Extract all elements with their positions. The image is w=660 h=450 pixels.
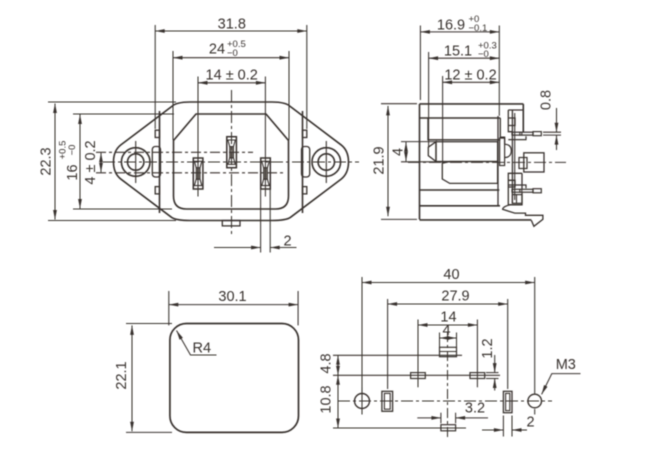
- left ear hole outer: [121, 148, 150, 177]
- svg-text:4: 4: [442, 323, 450, 339]
- earth pin bump: [505, 144, 512, 157]
- small pad right: [470, 373, 485, 379]
- dim 4 (pcb): [440, 337, 457, 339]
- svg-text:−0: −0: [478, 49, 489, 60]
- LN-row box: [442, 162, 497, 184]
- live pin L: [193, 158, 203, 189]
- 40-dim left extension: [361, 277, 363, 393]
- tab top-left: [155, 130, 159, 137]
- body left edge: [419, 104, 421, 220]
- right ear hole inner: [318, 154, 334, 170]
- svg-text:4: 4: [390, 148, 406, 156]
- svg-text:4 ± 0.2: 4 ± 0.2: [83, 140, 99, 184]
- svg-text:2: 2: [283, 234, 291, 250]
- top clip bracket: [508, 110, 523, 132]
- L pin vertical centerline: [197, 77, 199, 197]
- side view horizontal centerline: [408, 161, 566, 163]
- svg-text:10.8: 10.8: [318, 385, 334, 413]
- upper horizontal line: [420, 117, 501, 119]
- right ear hole outer: [312, 148, 341, 177]
- reference line A: [333, 354, 462, 356]
- 14-dim right extension through pad: [476, 320, 478, 388]
- svg-text:27.9: 27.9: [441, 289, 469, 305]
- M3 leader: [542, 374, 581, 395]
- svg-text:−0: −0: [227, 48, 238, 59]
- earth pin block: [500, 138, 505, 165]
- dim 14 (pcb): [418, 324, 477, 326]
- R4 leader: [177, 331, 217, 356]
- body top edge: [420, 103, 524, 105]
- N pin width extension lines: [260, 189, 262, 253]
- dim 0.8: [556, 108, 558, 132]
- svg-text:16: 16: [65, 164, 81, 180]
- dim 24: [173, 57, 289, 59]
- small pad left: [411, 373, 426, 379]
- top pin jaw: [508, 136, 526, 139]
- svg-text:−0: −0: [67, 145, 78, 156]
- lower pin jaw: [508, 185, 526, 188]
- flange outline: [114, 102, 349, 221]
- svg-text:−0.1: −0.1: [469, 23, 488, 34]
- face step: [500, 118, 504, 145]
- L-N pins horizontal centerline: [96, 172, 283, 174]
- earth pin E: [227, 137, 237, 168]
- body face line: [497, 116, 499, 206]
- svg-text:15.1: 15.1: [444, 44, 472, 60]
- dim 12±0.2: [443, 81, 500, 83]
- svg-text:R4: R4: [193, 341, 212, 357]
- upper box: [428, 118, 500, 140]
- dim 30.1: [169, 304, 298, 306]
- right slot pad: [503, 391, 512, 412]
- earth-row box: [428, 142, 436, 162]
- mounting foot snap latch: [503, 205, 543, 227]
- dim 4.8: [337, 355, 339, 375]
- bottom terminal pin: [512, 189, 533, 192]
- right ear hole vertical centerline: [325, 141, 327, 183]
- vertical centerline: [231, 90, 233, 237]
- left side ridge: [152, 147, 160, 178]
- main horizontal centerline: [103, 161, 359, 163]
- dim 1.2: [494, 355, 496, 373]
- flange plate: [511, 110, 513, 204]
- svg-text:24: 24: [209, 42, 225, 58]
- N pin vertical centerline: [264, 77, 266, 197]
- 27.9-dim left extension: [387, 299, 389, 389]
- left ear hole inner: [128, 154, 144, 170]
- M3 mounting hole: [528, 394, 542, 408]
- 2-dim extensions: [502, 416, 504, 437]
- svg-text:2: 2: [526, 415, 534, 431]
- dim 14±0.2: [198, 82, 265, 84]
- svg-text:1.2: 1.2: [480, 338, 496, 358]
- 14-dim left extension through pad: [417, 320, 419, 388]
- center tab: [524, 153, 544, 172]
- bottom pad: [441, 425, 456, 431]
- svg-text:21.9: 21.9: [371, 146, 387, 174]
- dim 22.1: [131, 325, 133, 431]
- lower clip bracket: [508, 173, 522, 205]
- 4-dim extensions: [439, 333, 441, 348]
- svg-text:14 ± 0.2: 14 ± 0.2: [206, 68, 258, 84]
- dim 16: [79, 115, 81, 209]
- svg-text:0.8: 0.8: [538, 90, 554, 110]
- svg-text:4.8: 4.8: [318, 353, 334, 373]
- 3.2-dim extensions: [440, 413, 442, 424]
- dim 2 (pcb): [482, 429, 503, 431]
- left slot pad: [382, 391, 393, 411]
- earth pin horizontal centerline: [96, 151, 253, 153]
- svg-text:31.8: 31.8: [218, 17, 246, 33]
- dim 3.2: [417, 417, 441, 419]
- tab bottom-right: [303, 187, 307, 194]
- dim 4 (side): [405, 142, 407, 161]
- dim 16.9: [420, 31, 499, 33]
- mounting hole left: [355, 394, 370, 409]
- svg-text:22.1: 22.1: [114, 361, 130, 389]
- right side ridge: [302, 147, 310, 178]
- vertical centerline: [447, 332, 449, 438]
- svg-text:40: 40: [443, 267, 459, 283]
- dim 31.8: [155, 30, 307, 32]
- svg-text:30.1: 30.1: [218, 289, 246, 305]
- pin tick marks: [519, 132, 521, 136]
- big top pad: [440, 347, 457, 356]
- lower horizontal lines: [420, 189, 500, 191]
- dim 2 (pin width): [214, 247, 261, 249]
- body right edge (top): [522, 104, 524, 132]
- dim 21.9: [387, 106, 389, 216]
- svg-text:22.3: 22.3: [38, 147, 54, 175]
- svg-text:3.2: 3.2: [465, 401, 485, 417]
- body bottom edge: [420, 219, 532, 221]
- left ear hole vertical centerline: [135, 141, 137, 183]
- tab top-right: [303, 130, 307, 137]
- 27.9-dim right extension: [507, 299, 509, 389]
- dim 22.3: [54, 104, 56, 220]
- svg-text:12 ± 0.2: 12 ± 0.2: [444, 68, 496, 84]
- body right edge: [302, 111, 304, 213]
- inner face recess: [174, 114, 289, 209]
- tab bottom-left: [155, 187, 159, 194]
- neutral pin N: [261, 158, 271, 189]
- dim 15.1: [429, 57, 500, 59]
- bottom tab: [222, 221, 240, 226]
- dim 40: [362, 282, 535, 284]
- dim 27.9: [388, 303, 508, 305]
- reference line B: [333, 374, 500, 376]
- svg-text:M3: M3: [556, 357, 576, 373]
- dim 10.8: [337, 375, 339, 428]
- body left edge: [159, 111, 161, 213]
- dim 4±0.2: [100, 153, 102, 173]
- horizontal centerline: [338, 400, 552, 402]
- 40-dim right extension: [534, 277, 536, 394]
- svg-text:16.9: 16.9: [437, 18, 465, 34]
- reference line C: [333, 427, 466, 429]
- panel cutout rounded rectangle: [170, 324, 299, 433]
- top terminal pin: [512, 132, 533, 135]
